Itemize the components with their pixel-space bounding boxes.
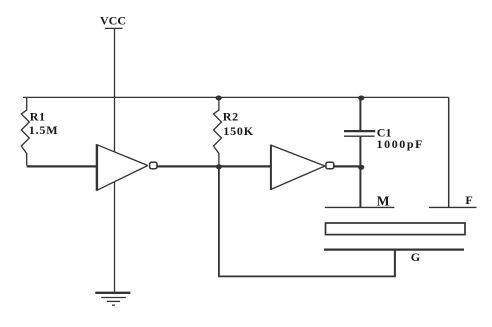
svg-text:150K: 150K	[223, 124, 254, 138]
svg-text:VCC: VCC	[100, 14, 126, 28]
svg-text:G: G	[411, 250, 420, 264]
svg-text:1.5M: 1.5M	[29, 123, 59, 137]
svg-text:1000pF: 1000pF	[377, 137, 425, 151]
svg-text:M: M	[377, 193, 390, 208]
svg-text:R2: R2	[223, 110, 239, 124]
svg-text:R1: R1	[30, 110, 46, 124]
svg-text:F: F	[465, 193, 472, 207]
